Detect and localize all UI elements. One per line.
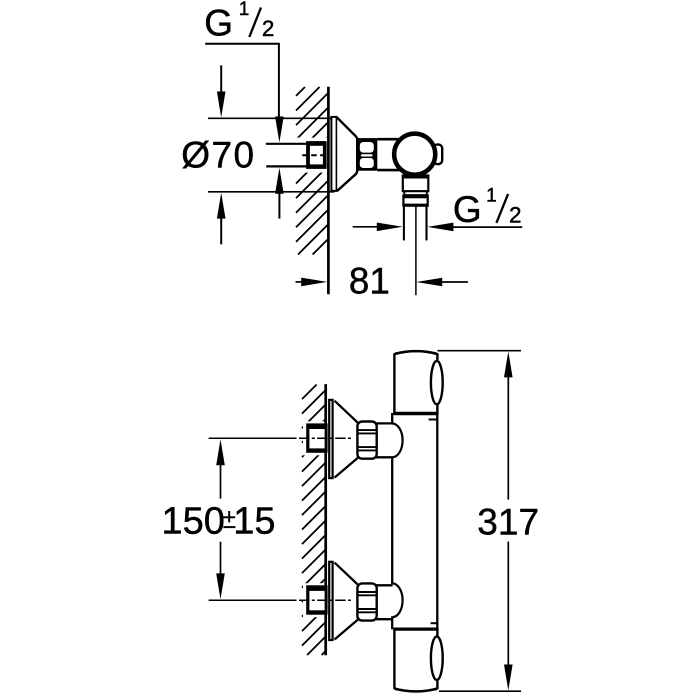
wall line (front view) xyxy=(324,384,327,655)
escutcheon back plate (side view) xyxy=(331,117,336,191)
lower wall union nut (front view) xyxy=(306,585,327,614)
arrow to pipe bottom edge xyxy=(275,168,284,219)
fraction slash right xyxy=(496,194,508,223)
bottom cap of body xyxy=(393,629,438,692)
thread centre dashes in nut xyxy=(302,154,326,156)
top cap of body xyxy=(393,351,438,414)
tick below top cap xyxy=(429,419,438,421)
svg-text:1: 1 xyxy=(486,185,497,206)
valve body tube (side view) xyxy=(377,139,400,170)
hex union nut on valve inlet (side view) xyxy=(357,138,377,171)
lower centre line xyxy=(209,599,353,601)
hose collar nut (side view) xyxy=(403,196,427,206)
chin line under dial xyxy=(404,177,428,179)
tick above bottom cap xyxy=(431,622,439,624)
label G 1/2 top left xyxy=(204,0,274,43)
upper centre line xyxy=(209,437,353,439)
fraction slash top left xyxy=(249,8,261,38)
lower escutcheon back plate (front view) xyxy=(329,562,332,640)
groove ring (side view) xyxy=(404,191,427,195)
hose centre extension line xyxy=(415,207,417,296)
arrow to pipe top edge xyxy=(275,117,284,143)
temperature handle end cap (side view, right) xyxy=(434,144,443,164)
neck below body (side view) xyxy=(403,176,429,192)
leader line of G 1/2 top xyxy=(205,44,280,122)
label 15 xyxy=(233,501,275,543)
svg-text:15: 15 xyxy=(233,501,275,543)
upper hex nut on inlet (front view) xyxy=(357,422,376,459)
lower inlet dome joint xyxy=(391,583,403,617)
svg-text:81: 81 xyxy=(349,260,390,301)
svg-text:150: 150 xyxy=(162,501,225,543)
upper wall union nut (front view) xyxy=(306,423,327,452)
extension line top of D70 xyxy=(208,117,335,119)
upper escutcheon back plate (front view) xyxy=(329,400,332,478)
top knob ellipse xyxy=(431,361,443,404)
svg-text:G: G xyxy=(204,2,233,43)
upper connection: pipe lines xyxy=(376,423,393,457)
body tube edges (front view) xyxy=(392,413,437,629)
lower connection: pipe lines xyxy=(376,585,393,619)
wall union nut (side view) xyxy=(306,141,327,169)
bottom knob ellipse xyxy=(431,637,443,680)
svg-text:Ø70: Ø70 xyxy=(181,135,255,176)
shower hose outlet lines xyxy=(404,206,427,239)
white mask behind lower union nut (front view) xyxy=(303,583,328,617)
svg-text:G: G xyxy=(453,189,482,230)
dimension 317 xyxy=(438,351,522,692)
supply pipe (side view) xyxy=(266,144,326,167)
wall hatching (front view) xyxy=(302,385,327,656)
wall hatching (side view) xyxy=(296,87,329,255)
lower hex nut on inlet (front view) xyxy=(357,583,376,620)
wall line (side view) xyxy=(327,87,330,294)
label D70 xyxy=(181,135,255,176)
plus-minus symbol xyxy=(223,511,235,527)
svg-text:317: 317 xyxy=(477,502,539,543)
label 317 xyxy=(477,502,539,543)
thermostat dial circle (side view) xyxy=(393,133,436,176)
label 150 xyxy=(162,501,225,543)
extension line bottom of D70 xyxy=(208,191,335,193)
label G 1/2 right xyxy=(453,185,522,230)
hose thread dimension arrows G 1/2 xyxy=(377,223,454,232)
white mask behind upper union nut (front view) xyxy=(303,421,328,455)
dimension D70 arrows xyxy=(217,92,226,219)
label 81 xyxy=(349,260,390,301)
svg-text:2: 2 xyxy=(509,202,522,227)
white mask behind supply pipe and nut (side view) xyxy=(264,138,331,173)
svg-text:1: 1 xyxy=(239,0,250,20)
escutcheon cone (side view) xyxy=(337,118,357,191)
upper escutcheon cone (front view) xyxy=(335,401,358,478)
dimension 150 +/- 15 xyxy=(216,439,225,599)
dimension 81 xyxy=(301,278,442,287)
svg-text:2: 2 xyxy=(262,16,275,41)
upper inlet dome joint xyxy=(391,424,403,458)
lower escutcheon cone (front view) xyxy=(335,563,358,640)
